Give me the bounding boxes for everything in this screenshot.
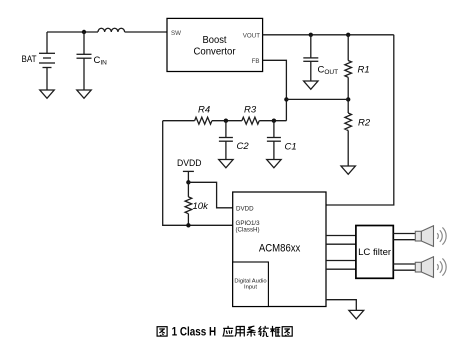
glyph 框 <box>270 326 280 337</box>
wire LC filter to speaker 2 <box>393 263 415 265</box>
inductor L1 <box>98 28 125 32</box>
ground (R2) <box>341 166 355 174</box>
svg-text:SW: SW <box>171 30 181 37</box>
capacitor C1 <box>267 121 297 160</box>
resistor R1 <box>345 35 370 100</box>
speaker SPK1 <box>415 226 446 247</box>
svg-text:VOUT: VOUT <box>243 33 260 40</box>
glyph 图 (second) <box>282 327 292 336</box>
capacitor C2 <box>219 121 249 160</box>
glyph 应 <box>223 326 234 337</box>
ground (C1) <box>267 160 281 168</box>
svg-text:ACM86xx: ACM86xx <box>259 243 301 255</box>
node C2 tap <box>224 119 228 123</box>
resistor R3 <box>242 105 259 125</box>
resistor R4 <box>195 105 212 125</box>
filter U3 LC filter <box>356 226 393 279</box>
wire ACM86xx out pin 1 <box>326 235 356 237</box>
boost converter U1 <box>167 18 263 71</box>
speaker SPK2 <box>415 257 446 278</box>
wire BAT to SW (input rail) <box>47 31 98 33</box>
svg-text:BAT: BAT <box>22 54 37 64</box>
node input junction <box>82 30 86 34</box>
svg-text:COUT: COUT <box>318 65 339 77</box>
svg-text:DVDD: DVDD <box>236 206 254 213</box>
capacitor CIN <box>77 32 108 90</box>
resistor R5 10k <box>185 182 209 225</box>
node FB junction <box>284 97 288 101</box>
node R1/R2 junction <box>346 97 350 101</box>
node R1 tap <box>346 33 350 37</box>
svg-text:(ClassH): (ClassH) <box>236 227 260 234</box>
wire ACM86xx out pin 2 <box>326 243 356 245</box>
wire DVDD to ACM86xx DVDD pin <box>188 182 232 208</box>
ground (battery) <box>40 90 54 98</box>
ground (C2) <box>219 160 233 168</box>
wire ACM86xx ground pin <box>326 300 356 311</box>
caption: 图 1 Class H 应用系统框图 <box>157 326 292 339</box>
ground (ACM86xx) <box>349 310 364 319</box>
svg-text:FB: FB <box>252 58 260 65</box>
glyph 图 <box>157 327 167 336</box>
svg-text:10k: 10k <box>193 201 210 212</box>
capacitor COUT <box>303 35 338 81</box>
wire VOUT rail <box>263 34 394 36</box>
svg-text:DVDD: DVDD <box>177 158 202 168</box>
wire R3 to feedback corner <box>259 120 286 122</box>
svg-text:Convertor: Convertor <box>194 47 237 58</box>
svg-text:Input: Input <box>244 285 257 291</box>
svg-text:R4: R4 <box>198 105 210 116</box>
wire VOUT down to ACM86xx supply pin <box>326 35 394 205</box>
battery BAT <box>22 32 56 90</box>
DVDD supply symbol <box>177 158 202 183</box>
svg-text:R2: R2 <box>358 118 371 129</box>
wire left feedback drop to GPIO line <box>163 121 233 226</box>
svg-text:Boost: Boost <box>203 35 227 46</box>
glyph 用 <box>235 327 245 337</box>
wire FB to feedback node <box>263 60 287 120</box>
amplifier U2 ACM86xx <box>233 192 326 307</box>
node C1 tap <box>272 119 276 123</box>
wire ACM86xx out pin 3 <box>326 260 356 262</box>
svg-text:1 Class H: 1 Class H <box>172 326 217 338</box>
wire R4/R3 feedback line <box>163 120 195 122</box>
svg-text:R1: R1 <box>358 65 370 76</box>
svg-text:LC filter: LC filter <box>358 247 391 257</box>
resistor R2 <box>345 99 371 166</box>
ground (CIN) <box>77 90 91 98</box>
digital audio input port <box>233 262 269 307</box>
svg-text:CIN: CIN <box>94 55 108 67</box>
node DVDD junction <box>186 180 190 184</box>
node COUT tap <box>309 33 313 37</box>
wire feedback node to R1/R2 divider <box>286 98 348 100</box>
svg-text:C2: C2 <box>237 141 250 152</box>
glyph 统 <box>259 326 269 337</box>
svg-text:R3: R3 <box>244 105 257 116</box>
wire ACM86xx out pin 4 <box>326 268 356 270</box>
wire LC filter to speaker 1 <box>393 233 415 235</box>
wire R4 to C2 node <box>212 120 242 122</box>
node GPIO junction <box>186 223 190 227</box>
glyph 系 <box>247 326 256 337</box>
ground (COUT) <box>304 81 318 89</box>
svg-text:C1: C1 <box>285 142 297 153</box>
